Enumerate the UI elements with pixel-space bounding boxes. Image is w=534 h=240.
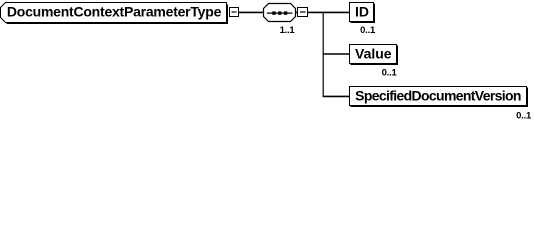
svg-text:DocumentContextParameterType: DocumentContextParameterType bbox=[7, 4, 222, 20]
svg-text:SpecifiedDocumentVersion: SpecifiedDocumentVersion bbox=[355, 87, 521, 103]
svg-text:0..1: 0..1 bbox=[516, 110, 532, 121]
svg-text:Value: Value bbox=[355, 45, 392, 61]
svg-text:1..1: 1..1 bbox=[280, 25, 296, 36]
svg-text:ID: ID bbox=[355, 3, 369, 19]
svg-text:0..1: 0..1 bbox=[382, 67, 398, 78]
svg-text:0..1: 0..1 bbox=[360, 25, 376, 36]
